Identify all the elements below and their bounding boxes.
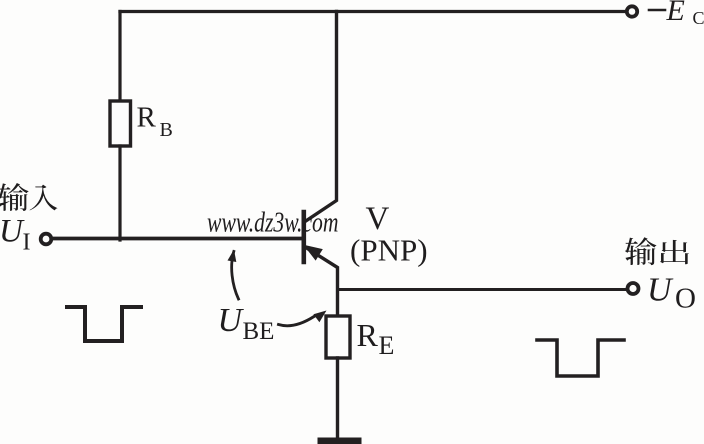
svg-text:(PNP): (PNP) [350, 233, 428, 268]
svg-text:E: E [379, 331, 395, 360]
power terminal -EC circle [627, 6, 637, 16]
svg-text:U: U [0, 214, 25, 250]
label -EC minus sign [649, 9, 665, 12]
svg-text:C: C [693, 8, 704, 28]
wire: left vertical from rail to RB [118, 12, 121, 102]
wire: RB bottom lead [118, 146, 121, 240]
svg-text:B: B [160, 119, 173, 141]
svg-text:BE: BE [243, 318, 275, 345]
arrow from UBE to emitter/RE [279, 317, 315, 326]
transistor V emitter PNP arrow [305, 246, 323, 260]
ground bar [321, 438, 358, 444]
svg-text:U: U [647, 272, 674, 309]
wire: input base wire [53, 237, 303, 241]
svg-text:R: R [137, 102, 157, 134]
svg-text:O: O [675, 283, 696, 315]
svg-text:www.dz3w.com: www.dz3w.com [207, 207, 338, 239]
transistor V emitter lead [305, 247, 338, 316]
transistor V collector lead [305, 12, 337, 222]
arrow from UBE to base wire [232, 252, 239, 300]
svg-text:E: E [666, 0, 685, 27]
svg-text:R: R [357, 317, 379, 353]
wire: output wire from emitter node [338, 288, 626, 291]
label 输入 (input) [0, 183, 57, 211]
svg-text:U: U [218, 302, 245, 339]
arrowhead of UBE-to-emitter arrow [313, 311, 326, 323]
wire: RE to ground [336, 358, 339, 438]
waveform: output pulse [537, 340, 624, 376]
resistor RE [326, 316, 350, 358]
resistor RB [110, 101, 131, 146]
wire: top supply rail [120, 10, 626, 13]
input terminal circle [41, 234, 52, 245]
waveform: input pulse [67, 307, 141, 341]
arrowhead of UBE-to-base arrow [228, 250, 237, 263]
label 输出 (output) [625, 237, 689, 265]
svg-text:I: I [23, 230, 31, 256]
output terminal circle [628, 283, 639, 294]
transistor V base bar [301, 212, 306, 262]
